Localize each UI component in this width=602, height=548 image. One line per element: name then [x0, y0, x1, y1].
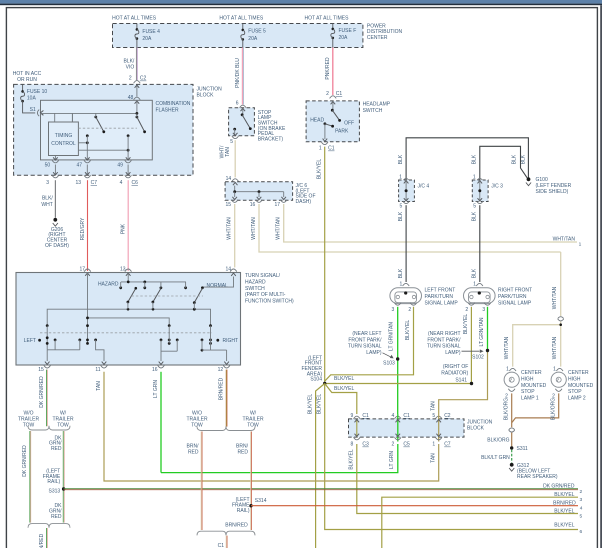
svg-text:TAN: TAN: [431, 401, 437, 411]
svg-text:S103: S103: [383, 361, 395, 367]
svg-text:3: 3: [580, 497, 583, 503]
splice S141: [470, 382, 473, 385]
svg-text:S104: S104: [310, 377, 322, 383]
svg-text:BRN/RED: BRN/RED: [225, 523, 248, 529]
turn signal switch pin 12: [223, 365, 230, 368]
svg-text:16: 16: [152, 367, 158, 373]
svg-text:20A: 20A: [339, 35, 349, 41]
svg-text:BLK: BLK: [398, 154, 404, 164]
svg-text:BLK: BLK: [398, 268, 404, 278]
svg-text:5: 5: [580, 514, 583, 520]
svg-text:SIGNAL LAMP: SIGNAL LAMP: [498, 300, 532, 306]
svg-text:2: 2: [392, 442, 395, 448]
svg-text:LEFT: LEFT: [24, 338, 36, 344]
svg-text:BLK: BLK: [472, 154, 478, 164]
wire TAN turn signal switch pin 11 to junction block C7: [104, 372, 439, 481]
svg-text:BLK: BLK: [520, 154, 526, 164]
svg-text:2: 2: [580, 489, 583, 495]
svg-text:WHT/TAN: WHT/TAN: [227, 217, 233, 240]
wire BRN/RED w/o trailer tow branch: [200, 432, 202, 531]
svg-text:TAN: TAN: [225, 147, 231, 157]
svg-text:DK GRN/RED: DK GRN/RED: [22, 445, 28, 477]
svg-text:C1: C1: [218, 543, 225, 548]
ground G206: [53, 218, 57, 222]
svg-text:20A: 20A: [142, 36, 152, 42]
wire BLK J/C4 branch upper: [406, 138, 528, 180]
svg-text:2: 2: [465, 307, 468, 313]
svg-text:4: 4: [580, 505, 583, 511]
svg-text:BLK/YEL: BLK/YEL: [554, 509, 575, 515]
svg-text:(NEAR RIGHT: (NEAR RIGHT: [428, 331, 461, 337]
wire BLK J/C3 to right front lamp pin 1: [479, 205, 481, 282]
wire WHT/TAN J/C6 pin17 to rear stop lamps (1): [284, 204, 577, 242]
combination flasher U1 box: [41, 100, 153, 160]
brace top DK GRN/RED: [28, 426, 70, 430]
svg-text:WHT/TAN: WHT/TAN: [552, 286, 558, 309]
svg-text:FLASHER: FLASHER: [156, 107, 179, 113]
svg-text:BLK/ORG: BLK/ORG: [503, 398, 509, 420]
svg-text:S141: S141: [455, 377, 467, 383]
turn signal switch pin 15: [44, 365, 51, 368]
splice S102: [486, 349, 489, 352]
svg-text:C2: C2: [140, 76, 147, 82]
wire DK GRN/RED S313 to rear harness line 2: [64, 488, 578, 490]
svg-text:LAMP 2: LAMP 2: [568, 395, 586, 401]
svg-text:WHT: WHT: [41, 202, 52, 208]
switch internal hazard bus: [85, 273, 90, 276]
svg-text:LT GRN: LT GRN: [153, 380, 159, 398]
wire fuse4 feed inside junction block to pin 48: [136, 85, 138, 96]
svg-text:LAMP): LAMP): [445, 350, 461, 356]
brace top BRN/RED: [197, 426, 255, 430]
svg-text:BLK/YEL: BLK/YEL: [463, 314, 469, 335]
switch internal pin14 feed: [202, 277, 233, 288]
svg-text:C5: C5: [403, 442, 410, 448]
brace bottom BRN/RED: [197, 531, 255, 535]
stop lamp switch pin 5: [233, 133, 238, 136]
svg-text:14: 14: [226, 176, 232, 182]
svg-text:13: 13: [75, 180, 81, 186]
svg-text:OFF: OFF: [344, 120, 354, 126]
svg-text:2: 2: [408, 307, 411, 313]
wire fuse 10 to S1: [23, 101, 36, 113]
flasher timing linkage dashed line: [78, 127, 136, 129]
wire BRN/RED w/ trailer tow branch: [250, 432, 252, 531]
wire WHT/TAN J/C6 pin15 to turn signal switch pin 14: [234, 204, 236, 267]
svg-text:4: 4: [120, 180, 123, 186]
svg-text:FUSE 4: FUSE 4: [142, 29, 160, 35]
svg-text:TOW: TOW: [57, 422, 69, 428]
svg-text:49: 49: [117, 162, 123, 168]
svg-text:OR RUN: OR RUN: [17, 77, 37, 83]
wire RED/GRY pin 13 C7 to turn signal switch pin 17: [87, 180, 89, 271]
svg-text:SWITCH: SWITCH: [245, 286, 265, 292]
svg-text:BLK/YEL: BLK/YEL: [334, 376, 355, 382]
svg-text:S313: S313: [49, 489, 61, 495]
svg-text:1: 1: [432, 442, 435, 448]
flasher wire timing control to pin 49 contact: [78, 149, 128, 151]
splice S103: [396, 357, 399, 360]
svg-text:BLK/YEL: BLK/YEL: [405, 320, 411, 341]
wire BLK/LT GRN S311 to G312: [511, 450, 513, 463]
wire BLK/YEL left lamp pin 2 to S104: [325, 307, 414, 381]
wire BRN/RED turn signal pin 12 down: [225, 370, 227, 427]
svg-text:5: 5: [230, 139, 233, 145]
fuse 5 20A: [242, 24, 244, 30]
svg-text:FUSE 10: FUSE 10: [27, 89, 48, 95]
svg-text:WHT/TAN: WHT/TAN: [552, 336, 558, 359]
headlamp switch contacts: [331, 102, 336, 105]
switch blades row 1: [128, 288, 136, 302]
svg-text:FUNCTION SWITCH): FUNCTION SWITCH): [245, 298, 294, 304]
wire BLK/YEL rear harness line 3: [382, 497, 578, 548]
svg-text:PNK: PNK: [121, 223, 127, 234]
svg-text:C3: C3: [362, 442, 369, 448]
wire WHT/TAN down right side to CHMSL connector: [560, 252, 562, 316]
svg-text:S311: S311: [517, 446, 529, 452]
flasher internal bus from S1/pin48: [40, 111, 43, 116]
wire BLK J/C3 branch lower: [480, 146, 527, 179]
svg-text:2: 2: [129, 76, 132, 82]
svg-text:C7: C7: [91, 180, 98, 186]
turn signal switch pin 16: [158, 365, 165, 368]
svg-text:BLK/: BLK/: [42, 196, 53, 202]
svg-text:RED: RED: [237, 449, 248, 455]
svg-text:S102: S102: [472, 355, 484, 361]
svg-text:STOP: STOP: [521, 389, 535, 395]
wire PNK pin 4 C6 to turn signal switch pin 13: [127, 180, 129, 271]
svg-text:1: 1: [579, 241, 582, 247]
flasher wire timing control to pin 47 contact: [78, 142, 87, 144]
svg-text:MOUNTED: MOUNTED: [521, 383, 547, 389]
svg-text:HIGH: HIGH: [568, 377, 581, 383]
svg-text:LT GRN/TAN: LT GRN/TAN: [389, 322, 395, 351]
wire BLK/VIO fuse 4 to junction block C2: [135, 48, 137, 81]
svg-text:BRN/RED: BRN/RED: [219, 377, 225, 400]
headlamp switch box: [306, 101, 359, 142]
svg-text:TURN SIGNAL/: TURN SIGNAL/: [245, 273, 281, 279]
svg-text:RED/GRY: RED/GRY: [80, 217, 86, 240]
svg-text:CENTER: CENTER: [521, 370, 542, 376]
svg-text:LAMP): LAMP): [366, 350, 382, 356]
svg-text:WHT/TAN: WHT/TAN: [251, 217, 257, 240]
flasher wire timing control to pin 50: [54, 156, 56, 160]
svg-text:8: 8: [351, 442, 354, 448]
svg-text:TOW: TOW: [247, 422, 259, 428]
inline connector BLK/ORG: [509, 428, 515, 430]
fuse 4 20A: [136, 24, 138, 30]
wire WHT/TAN split to CHMSL 1 and 2: [513, 322, 561, 367]
svg-text:3: 3: [482, 307, 485, 313]
svg-text:11: 11: [95, 367, 100, 373]
svg-text:4: 4: [392, 413, 395, 419]
switch hazard contact dots: [119, 286, 122, 289]
svg-text:BLK: BLK: [472, 211, 478, 221]
svg-text:HOT AT ALL TIMES: HOT AT ALL TIMES: [112, 15, 157, 21]
svg-text:C1: C1: [362, 413, 369, 419]
svg-text:TURN SIGNAL: TURN SIGNAL: [348, 344, 382, 350]
wire BLK J/C4 to left front lamp pin 1: [405, 205, 407, 282]
svg-text:BLK/YEL: BLK/YEL: [349, 449, 355, 470]
svg-text:VIO: VIO: [126, 65, 135, 71]
svg-text:9: 9: [351, 413, 354, 419]
wire BLK/ORG CHMSL 1 down: [511, 393, 513, 427]
svg-text:CENTER: CENTER: [568, 370, 589, 376]
svg-text:DK GRN/RED: DK GRN/RED: [543, 484, 575, 490]
svg-text:HOT AT ALL TIMES: HOT AT ALL TIMES: [219, 15, 264, 21]
junction connector J/C 6 box: [225, 182, 293, 200]
splice S104: [323, 382, 326, 385]
svg-text:RIGHT: RIGHT: [223, 338, 239, 344]
svg-text:3: 3: [392, 307, 395, 313]
svg-text:BLOCK: BLOCK: [467, 426, 485, 432]
svg-text:15: 15: [38, 367, 44, 373]
splice S311: [510, 446, 513, 449]
svg-text:RADIATOR): RADIATOR): [441, 371, 468, 377]
wire BLK/YEL junction block pin 8 to rear harness line 5: [357, 444, 578, 514]
svg-text:DK GRN/RED: DK GRN/RED: [39, 533, 45, 548]
svg-text:S314: S314: [255, 498, 267, 504]
svg-text:BLK/YEL: BLK/YEL: [317, 394, 323, 415]
svg-text:BLK: BLK: [472, 268, 478, 278]
svg-text:1: 1: [400, 281, 403, 287]
svg-text:BLK/: BLK/: [123, 58, 134, 64]
svg-text:15: 15: [225, 202, 231, 208]
junction block (upper) box: [14, 84, 193, 175]
svg-text:TIMING: TIMING: [55, 133, 73, 139]
svg-text:(PART OF MULTI-: (PART OF MULTI-: [245, 292, 286, 298]
J/C 6 pin 17: [281, 197, 286, 200]
wire BRN/RED S314 to rear harness line 4: [251, 505, 578, 507]
wire BLK/YEL S104 branch down-left to bottom: [316, 384, 325, 548]
svg-text:JUNCTION: JUNCTION: [467, 419, 493, 425]
svg-text:BLK/LT GRN: BLK/LT GRN: [481, 455, 510, 461]
svg-text:10A: 10A: [27, 96, 37, 102]
svg-text:WHT/TAN: WHT/TAN: [276, 217, 282, 240]
wire DK GRN/RED w/o trailer tow branch: [29, 431, 31, 523]
svg-text:MOUNTED: MOUNTED: [568, 383, 594, 389]
svg-text:COMBINATION: COMBINATION: [156, 101, 191, 107]
svg-text:PARK/TURN: PARK/TURN: [498, 294, 527, 300]
svg-text:PNK/RED: PNK/RED: [325, 57, 331, 80]
stop lamp switch box: [229, 108, 255, 136]
turn signal hazard switch box: [16, 273, 241, 366]
svg-text:BLK/YEL: BLK/YEL: [554, 492, 575, 498]
switch lower contact rows left: [46, 326, 48, 350]
svg-text:FRONT PARK/: FRONT PARK/: [427, 337, 461, 343]
svg-text:SIDE SHIELD): SIDE SHIELD): [536, 189, 569, 195]
svg-text:TURN SIGNAL: TURN SIGNAL: [427, 344, 461, 350]
svg-text:HEADLAMP: HEADLAMP: [363, 102, 391, 108]
wire BLK/YEL S104 to S141: [325, 383, 472, 385]
flasher switch blade 2: [136, 116, 139, 119]
svg-text:C6: C6: [132, 180, 139, 186]
svg-text:C1: C1: [328, 146, 335, 152]
svg-text:RAIL): RAIL): [47, 479, 60, 485]
svg-text:PNK/DK BLU: PNK/DK BLU: [235, 58, 241, 88]
svg-text:LAMP 1: LAMP 1: [521, 395, 539, 401]
svg-text:NORMAL: NORMAL: [207, 283, 229, 289]
fuse F 20A: [332, 24, 334, 29]
svg-text:OF DASH): OF DASH): [45, 243, 69, 249]
svg-text:JUNCTION: JUNCTION: [197, 86, 223, 92]
svg-text:2: 2: [326, 91, 329, 97]
svg-text:BLK: BLK: [512, 154, 518, 164]
switch linkage dashed line 1: [132, 295, 204, 297]
wire WHT/TAN stop lamp switch to J/C 6 pin 14: [234, 140, 236, 177]
svg-text:BLK/YEL: BLK/YEL: [308, 394, 314, 415]
svg-text:6: 6: [580, 529, 583, 535]
svg-text:3: 3: [46, 180, 49, 186]
headlamp switch pin 1 C1: [321, 142, 328, 145]
pin 47: [85, 157, 90, 160]
svg-text:1: 1: [553, 367, 556, 373]
wire BRN/RED continues to bottom: [225, 536, 227, 548]
wire PNK/RED fuse F to headlamp switch: [332, 48, 334, 96]
wire WHT/TAN J/C6 pin16 to CHMSL feed: [259, 204, 561, 252]
svg-text:5: 5: [473, 204, 476, 210]
timing control box: [49, 122, 79, 156]
svg-text:BLK/YEL: BLK/YEL: [317, 159, 323, 180]
svg-text:HIGH: HIGH: [521, 377, 534, 383]
svg-text:5: 5: [432, 413, 435, 419]
wire LT GRN junction block to turn signal switch pin 16: [161, 444, 398, 473]
J/C 6 pin 16: [257, 197, 262, 200]
wire BLK/YEL S104 to junction block pin 9: [325, 384, 357, 415]
wire BLK/YEL headlamp switch to S104: [324, 147, 326, 384]
wire DK GRN/RED w/ trailer tow branch: [62, 431, 64, 523]
svg-text:LEFT FRONT: LEFT FRONT: [425, 288, 456, 294]
svg-text:BLK/ORG: BLK/ORG: [550, 398, 556, 420]
svg-text:BLK/YEL: BLK/YEL: [554, 523, 575, 529]
svg-text:FUSE F: FUSE F: [339, 28, 357, 34]
svg-text:LT GRN/TAN: LT GRN/TAN: [479, 317, 485, 346]
svg-text:SIGNAL LAMP: SIGNAL LAMP: [425, 300, 459, 306]
svg-text:(RIGHT OF: (RIGHT OF: [443, 364, 468, 370]
wire BLK/ORG to splice S311: [511, 433, 513, 447]
pin 50: [53, 157, 58, 160]
svg-text:SWITCH: SWITCH: [363, 108, 383, 114]
svg-text:BLK/YEL: BLK/YEL: [334, 386, 355, 392]
svg-text:CONTROL: CONTROL: [51, 141, 76, 147]
wire LT GRN/TAN right lamp pin 3 to S102: [487, 307, 489, 351]
svg-text:STOP: STOP: [568, 389, 582, 395]
svg-text:FRONT PARK/: FRONT PARK/: [348, 337, 382, 343]
svg-text:TAN: TAN: [431, 453, 437, 463]
svg-text:12: 12: [218, 367, 224, 373]
svg-text:20A: 20A: [248, 36, 258, 42]
svg-text:WHT/TAN: WHT/TAN: [553, 237, 576, 243]
svg-text:BRN/RED: BRN/RED: [553, 500, 576, 506]
svg-text:BLOCK: BLOCK: [197, 93, 215, 99]
ground G312: [510, 463, 514, 467]
J/C 6 pin 15: [232, 197, 237, 200]
svg-text:5: 5: [400, 204, 403, 210]
svg-text:(NEAR LEFT: (NEAR LEFT: [352, 331, 381, 337]
svg-text:BLK/ORG: BLK/ORG: [487, 437, 509, 443]
svg-text:FUSE 5: FUSE 5: [248, 29, 266, 35]
pin 49: [126, 157, 131, 160]
svg-text:16: 16: [250, 202, 256, 208]
svg-text:47: 47: [76, 162, 82, 168]
svg-text:BLK: BLK: [398, 211, 404, 221]
switch linkage dashed line 2: [40, 332, 212, 334]
wire LT GRN/TAN left lamp pin 3 to junction block: [397, 307, 399, 414]
svg-text:HEAD: HEAD: [310, 118, 324, 124]
svg-text:BRACKET): BRACKET): [258, 136, 284, 142]
switch mid contact dots: [46, 324, 49, 327]
svg-text:S1: S1: [30, 107, 36, 113]
svg-text:C7: C7: [444, 442, 451, 448]
svg-text:HAZARD: HAZARD: [98, 282, 119, 288]
switch bus row (lower): [88, 318, 170, 326]
brace bottom DK GRN/RED: [28, 524, 70, 528]
svg-text:J/C 3: J/C 3: [491, 183, 503, 189]
turn signal switch pin 11: [101, 365, 108, 368]
svg-text:1: 1: [473, 281, 476, 287]
svg-text:REAR SPEAKER): REAR SPEAKER): [517, 474, 558, 480]
svg-text:HAZARD: HAZARD: [245, 280, 266, 286]
svg-text:DASH): DASH): [296, 199, 312, 205]
wire TAN junction block C2 to splice S102: [439, 351, 488, 415]
svg-text:1: 1: [319, 146, 322, 152]
svg-text:WHT/TAN: WHT/TAN: [504, 336, 510, 359]
wire PNK/DK BLU fuse 5 to stop lamp switch: [241, 48, 243, 105]
ground G100: [527, 177, 531, 181]
wire DK GRN/RED turn signal pin 15 down: [46, 370, 48, 427]
wire BLK/WHT pin3 to G206: [54, 180, 56, 218]
flasher switch blade 1: [94, 116, 97, 119]
svg-text:C1: C1: [336, 91, 343, 97]
svg-text:PARK: PARK: [335, 129, 349, 135]
switch pin exits: [45, 362, 50, 365]
wire BLK/ORG CHMSL 2 down and join: [512, 393, 559, 422]
svg-text:50: 50: [45, 162, 51, 168]
power distribution center box: [113, 24, 363, 48]
svg-text:DK GRN/RED: DK GRN/RED: [39, 376, 45, 408]
svg-text:RED: RED: [188, 449, 199, 455]
svg-text:1: 1: [506, 367, 509, 373]
svg-text:LT GRN: LT GRN: [389, 451, 395, 469]
wire BLK/YEL right lamp pin 2 to S141: [470, 307, 472, 384]
svg-text:C2: C2: [444, 413, 451, 419]
svg-text:J/C 4: J/C 4: [418, 183, 430, 189]
svg-text:C1: C1: [403, 413, 410, 419]
svg-text:RED: RED: [51, 514, 62, 520]
svg-text:CENTER: CENTER: [367, 35, 388, 41]
svg-text:17: 17: [274, 202, 280, 208]
svg-text:6: 6: [236, 100, 239, 106]
wire DK GRN/RED continues to bottom: [46, 528, 48, 548]
svg-text:RED: RED: [51, 446, 62, 452]
svg-text:TAN: TAN: [96, 381, 102, 391]
fuse 10 10A: [22, 84, 24, 91]
svg-text:RAIL): RAIL): [237, 508, 250, 514]
inline connector CHMSL feed: [558, 317, 564, 319]
J/C 6 internal bus: [233, 182, 238, 185]
svg-text:HOT AT ALL TIMES: HOT AT ALL TIMES: [305, 15, 350, 21]
switch lower contact rows right: [160, 339, 163, 342]
svg-text:PARK/TURN: PARK/TURN: [425, 294, 454, 300]
svg-text:RIGHT FRONT: RIGHT FRONT: [498, 288, 532, 294]
junction block (lower) box: [349, 419, 465, 437]
stop lamp switch contacts: [241, 108, 246, 111]
switch bus row (upper): [47, 309, 210, 325]
wire BLK/YEL S104 down to rear harness line 6: [325, 384, 578, 530]
